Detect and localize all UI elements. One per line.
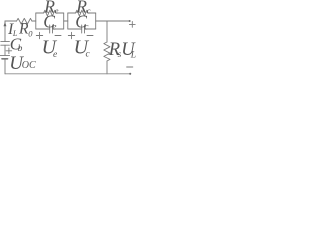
wire: Rs branch upper [106, 21, 108, 42]
block2 top edge right part [88, 12, 96, 14]
svg-text:c: c [87, 6, 91, 16]
voltage source Uoc short plate [2, 58, 8, 60]
resistor Rs vertical zigzag [104, 42, 110, 61]
wire: R0 to block1 [32, 20, 36, 22]
svg-text:c: c [84, 23, 89, 33]
resistor Re zigzag [44, 10, 57, 16]
svg-text:e: e [53, 50, 57, 60]
current arrow IL head [4, 22, 7, 27]
block1 left edge [35, 13, 37, 29]
block2 bottom edge right part [85, 28, 96, 30]
terminal node dot top right [129, 20, 131, 22]
svg-text:e: e [55, 6, 59, 16]
wire: Rs branch lower [106, 61, 108, 74]
resistor Rc zigzag [76, 10, 89, 16]
block2 right edge [95, 13, 97, 29]
block2 left edge [67, 13, 69, 29]
minus sign of Uc [87, 35, 93, 37]
voltage source Uoc long plate [0, 54, 9, 56]
wire: Cb to source [4, 45, 6, 55]
svg-text:0: 0 [28, 28, 33, 38]
plus sign of UL terminal [129, 22, 135, 28]
block1 right edge [63, 13, 65, 29]
wire: left vertical top segment [4, 21, 6, 42]
plus sign of Cb/Uoc polarity [6, 48, 12, 54]
block2 top edge left part [68, 12, 76, 14]
wire: source to bottom corner [4, 59, 6, 74]
block1 bottom edge left part [36, 28, 50, 30]
terminal node dot bottom right [129, 73, 131, 75]
block1 top edge right part [56, 12, 64, 14]
wire: block1 to block2 [64, 20, 68, 22]
wire: bottom return [5, 73, 130, 75]
minus sign of UL terminal [127, 66, 133, 68]
svg-text:L: L [130, 51, 136, 61]
block2 bottom edge left part [68, 28, 82, 30]
block1 bottom edge right part [53, 28, 64, 30]
svg-text:OC: OC [22, 60, 36, 71]
capacitor Ce plates [50, 25, 53, 33]
plus sign of Ue [36, 32, 42, 38]
svg-text:c: c [86, 50, 91, 60]
plus sign of Uc [68, 32, 74, 38]
capacitor Cb plates [1, 42, 10, 46]
block1 top edge left part [36, 12, 44, 14]
wire: block2 to right terminal [96, 20, 130, 22]
resistor R0 zigzag [17, 18, 33, 24]
capacitor Cc plates [82, 25, 85, 33]
wire: top horizontal from left corner to R0 [5, 20, 17, 22]
svg-text:e: e [52, 23, 56, 33]
minus sign of Ue [55, 35, 61, 37]
